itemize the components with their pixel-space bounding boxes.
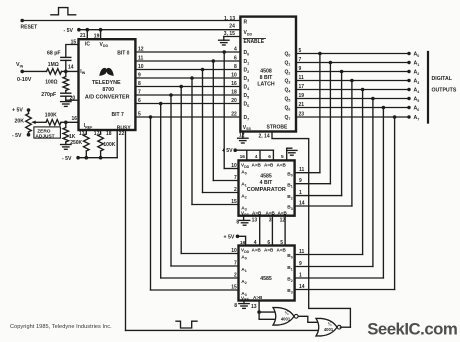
- svg-text:24: 24: [229, 24, 235, 30]
- wire A3 vertical drop to comparator B input: [351, 81, 353, 207]
- wire +5V bar to pins 16 4 6 of U3: [235, 149, 273, 151]
- svg-text:+ 5V: + 5V: [224, 234, 235, 240]
- node bit 2 tap: [201, 68, 205, 72]
- svg-text:7: 7: [299, 57, 302, 63]
- ground below 1K: [61, 144, 71, 146]
- wire U5 A2 input pin 2: [161, 277, 239, 279]
- svg-text:17: 17: [299, 84, 305, 90]
- svg-text:5: 5: [138, 112, 141, 118]
- Teledyne bird logo: [99, 68, 106, 76]
- svg-text:4001: 4001: [324, 327, 334, 332]
- ground below U3 VSS: [239, 219, 249, 221]
- wire +5V to pin 16 of U5: [238, 236, 246, 245]
- node A2 tap: [340, 70, 344, 74]
- node terminal A3: [407, 79, 410, 82]
- wire A7 vertical drop to comparator B input: [394, 117, 396, 290]
- node bit 7 tap: [149, 115, 153, 119]
- svg-text:- 5V: - 5V: [64, 28, 74, 34]
- svg-text:COMPARATOR: COMPARATOR: [247, 187, 286, 193]
- svg-text:A=B: A=B: [264, 162, 274, 167]
- svg-text:8 BIT: 8 BIT: [260, 75, 274, 81]
- zero adjust label box: [34, 127, 61, 138]
- 4 bit comparator U5 4585: [239, 246, 295, 301]
- svg-text:TELEDYNE: TELEDYNE: [92, 80, 121, 86]
- svg-text:A/D CONVERTER: A/D CONVERTER: [85, 95, 130, 101]
- wire output line A5 from latch Q5: [296, 98, 409, 100]
- wire A0 vertical drop to comparator B input: [319, 54, 321, 173]
- svg-text:100K: 100K: [45, 112, 57, 118]
- svg-text:4: 4: [234, 47, 237, 53]
- svg-text:A>B: A>B: [252, 210, 262, 215]
- svg-text:A=B: A=B: [264, 247, 274, 252]
- ground below 270pF: [61, 101, 71, 103]
- node bit 5 tap: [169, 93, 173, 97]
- svg-text:21: 21: [299, 102, 305, 108]
- ground on latch ENABLE: [224, 36, 241, 38]
- svg-text:A>B: A>B: [253, 295, 263, 300]
- wire output line A0 from latch Q0: [296, 53, 409, 55]
- node bit 4 tap: [179, 85, 183, 89]
- wire bit 6 line from U1 pin 6 to latch D6 pin 20: [135, 103, 240, 105]
- svg-text:11: 11: [299, 249, 305, 255]
- svg-text:10: 10: [231, 248, 237, 254]
- svg-text:270pF: 270pF: [41, 92, 56, 98]
- wire bit 7 vertical drop to comparator: [150, 117, 152, 290]
- wire output line A4 from latch Q4: [296, 89, 409, 91]
- node terminal A0: [407, 52, 410, 55]
- wire A6 vertical drop to comparator B input: [382, 108, 384, 279]
- wire pin 19 stub of U1: [99, 28, 103, 32]
- svg-text:OUTPUTS: OUTPUTS: [432, 88, 457, 94]
- wire A4 vertical drop to comparator B input: [362, 90, 364, 255]
- svg-text:18: 18: [106, 131, 112, 137]
- wire comparator U5 B2 pin: [295, 277, 384, 279]
- svg-text:+ 5V: + 5V: [12, 108, 23, 114]
- svg-text:22: 22: [119, 131, 125, 137]
- 8 bit latch U2 4508: [240, 17, 296, 132]
- svg-text:68 pF: 68 pF: [47, 51, 61, 57]
- node terminal A5: [407, 97, 410, 100]
- svg-text:15: 15: [231, 285, 237, 291]
- svg-text:6: 6: [138, 98, 141, 104]
- svg-text:BIT 0: BIT 0: [117, 50, 129, 56]
- svg-text:12: 12: [138, 47, 144, 53]
- node bit 6 tap: [159, 102, 163, 106]
- wire output line A7 from latch Q7: [296, 116, 409, 118]
- svg-text:20: 20: [231, 98, 237, 104]
- wire A1 vertical drop to comparator B input: [329, 63, 331, 184]
- svg-text:14: 14: [68, 64, 74, 70]
- svg-text:A<B: A<B: [277, 247, 287, 252]
- svg-text:- 5V: - 5V: [62, 156, 72, 162]
- node A7 tap: [393, 115, 397, 119]
- svg-text:11: 11: [299, 167, 305, 173]
- wire output line A3 from latch Q3: [296, 80, 409, 82]
- wire comparator U3 B2 pin: [295, 195, 342, 197]
- wire bit 2 vertical drop to comparator: [202, 70, 204, 193]
- reset pulse symbol: [51, 8, 76, 15]
- wire comparator U5 B3 pin: [295, 289, 395, 291]
- svg-text:20K: 20K: [15, 119, 25, 125]
- wire comparator U3 B0 pin: [295, 172, 320, 174]
- node A0 tap: [318, 52, 322, 56]
- wire A2 vertical drop to comparator B input: [341, 72, 343, 196]
- NOR gate U4a 1/4 4001: [273, 308, 294, 326]
- svg-text:250K: 250K: [70, 140, 82, 146]
- svg-text:8: 8: [234, 303, 237, 309]
- svg-text:19: 19: [299, 93, 305, 99]
- svg-text:4 BIT: 4 BIT: [260, 180, 274, 186]
- node 1K junction: [64, 121, 68, 125]
- wire U5 A0 input pin 10: [181, 253, 238, 255]
- node terminal A1: [407, 61, 410, 64]
- wire comparator U3 B1 pin: [295, 183, 331, 185]
- svg-text:1, 13: 1, 13: [224, 16, 235, 22]
- svg-text:¼: ¼: [285, 311, 289, 316]
- svg-text:SeekIC.com: SeekIC.com: [367, 320, 457, 339]
- svg-text:LATCH: LATCH: [257, 82, 274, 88]
- wire U3 A1 input pin 7: [213, 180, 238, 182]
- svg-text:8: 8: [138, 81, 141, 87]
- wire VIN to R 1M: [22, 70, 46, 72]
- wire comparator U5 B0 pin: [295, 254, 363, 256]
- node A3 tap: [350, 79, 354, 83]
- wire bit 1 vertical drop to comparator: [212, 61, 214, 181]
- svg-text:4508: 4508: [260, 69, 272, 75]
- wire bit 2 line from U1 pin 10 to latch D2 pin 8: [135, 69, 240, 71]
- net -5V supply rail to latch VDD: [77, 28, 81, 32]
- svg-text:1MΩ: 1MΩ: [48, 62, 59, 68]
- svg-text:13: 13: [251, 304, 257, 310]
- node terminal A4: [407, 88, 410, 91]
- wire U3 A2 input pin 2: [203, 192, 239, 194]
- svg-text:5: 5: [299, 48, 302, 54]
- wire pin 5 of U3 to ground: [287, 148, 292, 160]
- node A4 tap: [361, 88, 365, 92]
- svg-text:A=B: A=B: [266, 210, 276, 215]
- svg-text:13: 13: [252, 218, 258, 224]
- wire bit 7 line from U1 pin 5 to latch D7 pin 22: [135, 116, 240, 118]
- node bit 1 tap: [212, 59, 216, 63]
- svg-text:A>B: A>B: [252, 247, 262, 252]
- node terminal A7: [407, 115, 410, 118]
- svg-text:2: 2: [234, 187, 237, 193]
- svg-text:23: 23: [299, 112, 305, 118]
- busy pulse symbol: [176, 321, 197, 328]
- wire bit 3 vertical drop to comparator: [191, 78, 193, 205]
- wire bit 5 line from U1 pin 7 to latch D5 pin 18: [135, 94, 240, 96]
- wire output line A1 from latch Q1: [296, 62, 409, 64]
- pot wiper arrow: [34, 121, 47, 123]
- wire BUSY to NOR gate U4b: [126, 329, 318, 331]
- svg-text:0-10V: 0-10V: [17, 77, 32, 83]
- svg-text:1: 1: [299, 273, 302, 279]
- svg-text:7: 7: [234, 175, 237, 181]
- svg-text:3, 15: 3, 15: [224, 31, 235, 37]
- svg-text:A<B: A<B: [277, 162, 287, 167]
- wire U3 A3 input pin 15: [192, 204, 239, 206]
- wire U5 A1 input pin 7: [171, 265, 239, 267]
- svg-text:8700: 8700: [102, 87, 114, 93]
- node terminal A6: [407, 106, 410, 109]
- svg-text:- 5V: - 5V: [12, 133, 22, 139]
- ground below latch VSS: [238, 137, 248, 139]
- digital outputs bracket bar: [427, 52, 429, 123]
- svg-text:11: 11: [299, 75, 305, 81]
- svg-text:R: R: [244, 19, 248, 25]
- svg-text:6: 6: [234, 56, 237, 62]
- wire bit 3 line from U1 pin 9 to latch D3 pin 10: [135, 77, 240, 79]
- svg-text:7: 7: [138, 90, 141, 96]
- node A5 tap: [371, 97, 375, 101]
- svg-text:DIGITAL: DIGITAL: [432, 76, 453, 82]
- svg-text:11: 11: [138, 56, 144, 62]
- svg-text:RESET: RESET: [21, 24, 38, 30]
- svg-text:BIT 7: BIT 7: [112, 112, 124, 118]
- svg-text:4585: 4585: [260, 173, 272, 179]
- svg-text:8: 8: [234, 64, 237, 70]
- svg-text:STROBE: STROBE: [267, 125, 289, 131]
- node RESET: [20, 19, 24, 23]
- svg-text:10: 10: [231, 73, 237, 79]
- wire to NOR U4a upper input: [259, 311, 274, 313]
- wire bit 4 vertical drop to comparator: [180, 87, 182, 254]
- svg-text:22: 22: [231, 112, 237, 118]
- svg-text:18: 18: [231, 90, 237, 96]
- A/D converter U1 Teledyne 8700: [79, 39, 136, 130]
- wire bit 1 line from U1 pin 11 to latch D1 pin 6: [135, 60, 240, 62]
- svg-text:2, 14: 2, 14: [259, 134, 270, 140]
- svg-text:1: 1: [299, 190, 302, 196]
- node U4a input junction: [257, 310, 261, 314]
- svg-text:2: 2: [234, 273, 237, 279]
- svg-text:15: 15: [231, 199, 237, 205]
- wire A5 vertical drop to comparator B input: [372, 99, 374, 267]
- node terminal A2: [407, 70, 410, 73]
- svg-text:ENABLE: ENABLE: [244, 39, 265, 45]
- svg-text:7: 7: [234, 261, 237, 267]
- svg-text:100Ω: 100Ω: [45, 79, 57, 85]
- svg-text:ADJUST: ADJUST: [35, 133, 54, 139]
- svg-text:3: 3: [269, 218, 272, 224]
- node A6 tap: [382, 106, 386, 110]
- node bit 0 tap: [222, 50, 226, 54]
- svg-text:4001: 4001: [281, 316, 291, 321]
- svg-text:16: 16: [72, 116, 78, 122]
- wire bit 0 line from U1 pin 12 to latch D0 pin 4: [135, 51, 240, 53]
- node bit 3 tap: [190, 76, 194, 80]
- node -5V below pot: [27, 133, 31, 137]
- svg-text:A<B: A<B: [278, 210, 288, 215]
- wire U3 A0 input pin 10: [224, 168, 238, 170]
- svg-text:14: 14: [299, 201, 305, 207]
- wire U4a output to U4b input: [298, 316, 317, 322]
- svg-text:A>B: A>B: [252, 162, 262, 167]
- wire RESET to latch R pin: [22, 20, 240, 22]
- svg-text:10: 10: [231, 163, 237, 169]
- svg-text:16: 16: [231, 81, 237, 87]
- wire bit 0 vertical drop to comparator: [223, 52, 225, 169]
- wire output line A2 from latch Q2: [296, 71, 409, 73]
- svg-text:9: 9: [299, 66, 302, 72]
- wire bit 6 vertical drop to comparator: [160, 104, 162, 279]
- wire comparator U5 B1 pin: [295, 266, 373, 268]
- wire bit 5 vertical drop to comparator: [170, 95, 172, 266]
- node A1 tap: [329, 61, 333, 65]
- wire U5 A3 input pin 15: [151, 289, 239, 291]
- wire output line A6 from latch Q6: [296, 107, 409, 109]
- 4 bit comparator U3 4585: [239, 160, 295, 215]
- svg-text:IC: IC: [85, 42, 90, 48]
- node IIN junction: [64, 70, 68, 74]
- net -5V rail below U1: [76, 156, 80, 160]
- svg-text:¼: ¼: [328, 322, 332, 327]
- svg-text:100K: 100K: [103, 142, 115, 148]
- ground below U5 VSS: [239, 303, 249, 305]
- svg-text:+ 5V: + 5V: [222, 148, 233, 154]
- wire pin 21 stub of U1: [86, 28, 90, 32]
- svg-text:10: 10: [138, 64, 144, 70]
- svg-text:14: 14: [299, 284, 305, 290]
- wire U4b output to strobe net: [340, 326, 350, 328]
- svg-text:Copyright 1985, Teledyne Indus: Copyright 1985, Teledyne Industries Inc.: [10, 324, 112, 330]
- svg-text:9: 9: [138, 73, 141, 79]
- ground at U3 pin 5: [287, 149, 297, 151]
- wire bit 4 line from U1 pin 8 to latch D4 pin 16: [135, 86, 240, 88]
- wire comparator U3 B3 pin: [295, 205, 352, 207]
- svg-text:4585: 4585: [260, 276, 272, 282]
- svg-text:9: 9: [299, 178, 302, 184]
- NOR gate U4b 1/4 4001: [316, 318, 337, 336]
- svg-text:9: 9: [299, 261, 302, 267]
